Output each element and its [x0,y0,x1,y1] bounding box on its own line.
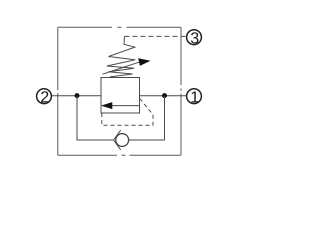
junction dot A [75,93,80,98]
pilot line to port 3 (dashed) [125,35,187,37]
spring adjustment arrow [103,58,151,74]
check valve ball [116,134,129,147]
valve body U1 [101,78,140,114]
wire: branch down from dot A to check valve [77,96,114,140]
junction dot B [162,93,167,98]
spring [107,36,135,77]
enclosure frame (chain line) [58,27,181,155]
wire: port 2 line [51,95,101,97]
port 1 circle [187,89,202,104]
pilot passage under valve (dashed) [102,99,153,126]
port 3 circle [187,30,202,45]
port 2 circle [37,89,52,104]
wire: port 1 line [140,95,187,97]
check valve seat [114,130,121,150]
flow path arrow inside valve [101,102,140,109]
wire: check valve to junction dot B [129,96,165,140]
